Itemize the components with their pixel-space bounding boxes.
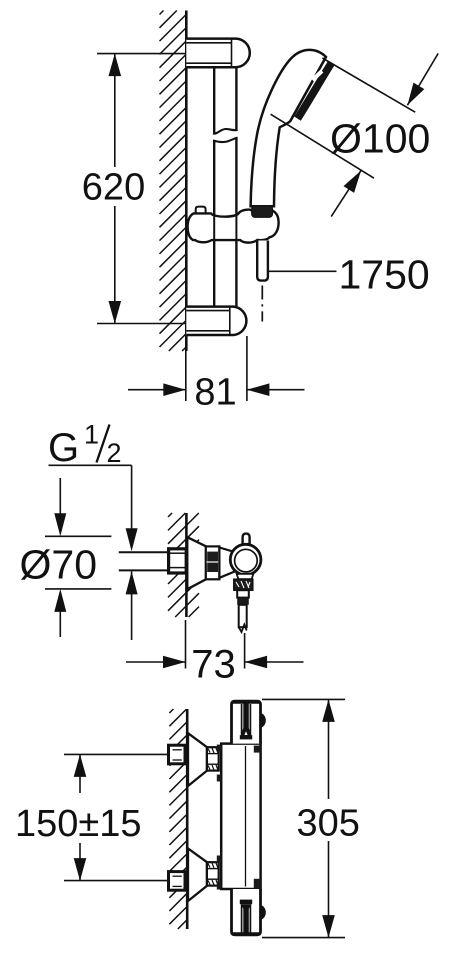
dimension diameter 100 arrow upper bbox=[407, 53, 438, 105]
svg-text:Ø70: Ø70 bbox=[20, 542, 98, 588]
glide rail break mark bbox=[213, 129, 238, 142]
thermostat body bbox=[217, 744, 261, 890]
dimension diameter 70 extension bottom bbox=[45, 588, 111, 590]
thread leader vertical bbox=[131, 465, 133, 529]
svg-text:Ø100: Ø100 bbox=[330, 116, 430, 162]
dimension 150 arrow down bbox=[74, 843, 87, 881]
dimension 73 line left bbox=[126, 656, 186, 669]
dimension diameter 70 extension top bbox=[45, 535, 111, 537]
svg-text:1: 1 bbox=[84, 420, 99, 450]
dimension 305 line bbox=[328, 699, 330, 937]
dimension 620 extension line top bbox=[97, 53, 185, 55]
thread arrow down bbox=[126, 528, 138, 551]
dimension diameter 100 arrow lower bbox=[331, 171, 361, 217]
top wall bracket bbox=[186, 39, 249, 68]
supply pipe nipple bbox=[119, 552, 169, 570]
svg-text:305: 305 bbox=[297, 803, 360, 845]
dimension 620 extension line bottom bbox=[97, 323, 185, 325]
dimension 305 extension bottom bbox=[262, 937, 345, 939]
svg-text:2: 2 bbox=[107, 438, 122, 468]
wall hatching (bottom view) bbox=[169, 709, 186, 929]
outlet pipe upper bbox=[237, 590, 249, 597]
lower S-union cone bbox=[188, 848, 207, 901]
wall face line (middle view) bbox=[185, 513, 188, 617]
slider holder body bbox=[188, 210, 279, 243]
thread leader underline bbox=[49, 464, 132, 466]
shower face line bbox=[290, 57, 326, 121]
upper S-union cone bbox=[188, 733, 207, 786]
outlet knurled nut bbox=[234, 579, 253, 590]
dimension 620 arrow down bbox=[109, 301, 122, 324]
glide rail left edge bbox=[213, 67, 215, 307]
lower S-union backnut bbox=[169, 872, 186, 891]
dimension 81 extension left (wall) bbox=[185, 351, 187, 401]
upper handle (shut-off) bbox=[232, 701, 266, 743]
rail lines through holder bbox=[214, 216, 236, 240]
svg-text:73: 73 bbox=[191, 643, 236, 687]
dimension 620 line bbox=[114, 54, 116, 324]
dimension 305 extension top bbox=[262, 698, 345, 700]
valve handle knob circle bbox=[230, 544, 261, 575]
dimension 150 arrow up bbox=[74, 754, 87, 793]
hose connector below holder bbox=[257, 241, 268, 281]
wall hatching (top view) bbox=[160, 11, 186, 352]
thread arrow up bbox=[126, 571, 138, 640]
valve knurled collar bbox=[206, 546, 220, 579]
outlet union cone bbox=[237, 574, 254, 579]
outlet pipe dark band bbox=[237, 598, 249, 605]
dimension diameter 70 arrow up bbox=[54, 589, 66, 637]
hand shower grip knurl bbox=[252, 206, 273, 218]
escutcheon cover plate bbox=[187, 537, 206, 589]
spray plate dark band bbox=[298, 63, 332, 118]
valve handle stem bbox=[243, 534, 250, 544]
svg-text:620: 620 bbox=[82, 167, 145, 209]
svg-text:G: G bbox=[48, 426, 79, 470]
thread label G 1/2 bbox=[48, 420, 122, 471]
wall hatching (middle view) bbox=[168, 513, 199, 617]
wall face line (bottom view) bbox=[186, 709, 189, 929]
dimension 81 line left bbox=[128, 383, 186, 396]
upper S-union backnut bbox=[169, 745, 186, 764]
dimension 150 extension top bbox=[64, 753, 173, 755]
svg-text:150±15: 150±15 bbox=[15, 803, 142, 845]
svg-text:81: 81 bbox=[194, 372, 236, 414]
bottom wall bracket bbox=[186, 307, 246, 335]
upper S-union nut bbox=[207, 747, 219, 770]
lower S-union nut bbox=[207, 862, 219, 885]
dimension diameter 70 arrow down bbox=[54, 478, 66, 536]
hose length leader line bbox=[268, 270, 336, 272]
svg-text:1750: 1750 bbox=[339, 252, 430, 298]
outlet pipe lower bbox=[239, 605, 247, 632]
dimension 73 line right bbox=[245, 656, 304, 669]
wall face line (top view) bbox=[185, 11, 188, 352]
dimension 81 line right bbox=[247, 383, 305, 396]
dimension 150 extension bottom bbox=[64, 880, 173, 882]
dimension diameter 100 extension line upper bbox=[322, 58, 415, 112]
dimension diameter 100 extension line lower bbox=[271, 114, 374, 178]
hand shower head body bbox=[251, 50, 326, 206]
dimension 73 extension left bbox=[185, 620, 187, 669]
dimension 620 arrow up bbox=[109, 54, 122, 77]
dimension 305 arrow up bbox=[322, 699, 335, 722]
valve body link bbox=[219, 548, 234, 578]
glide rail right edge bbox=[235, 67, 237, 307]
backnut behind wall bbox=[169, 549, 187, 573]
lower handle (temperature) bbox=[232, 889, 266, 935]
slider holder lock knob bbox=[196, 207, 206, 214]
dimension 81 extension right bbox=[246, 336, 248, 401]
hose center dash-dot line bbox=[261, 286, 263, 322]
dimension 73 extension right bbox=[244, 633, 246, 669]
dimension 305 arrow down bbox=[322, 915, 335, 938]
